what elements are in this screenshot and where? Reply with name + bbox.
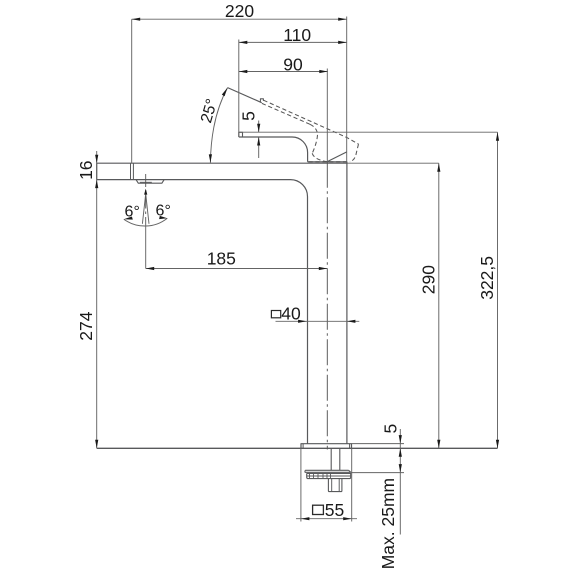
spout top edge / body top datum line [97,162,347,164]
extension line left of 110/90 [238,40,240,138]
25 arc arrows [209,154,212,163]
extension to 185 [145,224,147,269]
mounting nut [328,479,342,492]
lever blade bottom edge [262,103,310,124]
svg-text:40: 40 [281,304,301,324]
6 fan apex arrow [144,189,147,195]
lever at rest (dashed): blade top edge [264,100,359,144]
extension line right of 220/110 [346,17,348,162]
svg-text:Max. 25mm: Max. 25mm [378,478,398,569]
dimension 220 [132,18,347,20]
extension line 322.5 top [239,131,498,133]
washer band hatch ticks [310,473,331,478]
svg-text:6°: 6° [156,202,171,219]
svg-text:220: 220 [225,1,254,21]
6 degree arc [124,218,168,226]
dimension 40 [276,320,360,322]
dimension 55 [296,518,357,520]
322.5 arrows [496,132,499,141]
lever base (escutcheon) with nub [239,137,308,162]
extension lines 55 [301,448,352,521]
base plate end ticks [303,444,350,449]
base plate [301,444,352,449]
max25 bottom arrow [399,464,402,473]
290 arrows [437,163,440,172]
raised cap edge line [327,152,347,162]
arrowheads [95,18,499,521]
aerator lip [136,180,164,184]
label 40 with square [271,311,280,318]
mounting washer band [307,473,351,478]
nut inner verticals [332,479,340,492]
55 arrows [301,517,310,520]
washer band inner line [307,475,351,477]
mounting washer top plate [305,470,351,472]
90 arrows [239,70,248,73]
outlet seam verticals [131,163,134,179]
spout tip vertical [96,163,98,179]
extension base plate top right [352,443,405,445]
svg-text:16: 16 [76,160,96,179]
svg-text:90: 90 [283,55,303,75]
svg-text:55: 55 [325,500,344,520]
274 bottom arrow [95,440,98,449]
spout bottom edge curving into body left edge [97,180,308,444]
svg-text:185: 185 [207,249,236,269]
dimension 5 lever gap [258,121,260,159]
svg-text:322,5: 322,5 [477,256,497,300]
40 arrows (outside) [298,320,307,323]
220 arrows [132,18,141,21]
cap bottom-left dashed curve [312,153,327,161]
16 arrows [95,155,98,164]
svg-text:6°: 6° [125,203,140,220]
dimension texts [76,1,497,569]
aerator centerline [145,174,147,224]
svg-text:274: 274 [76,311,96,340]
lever tip notch [260,99,263,103]
extension line 290 (right of body along datum) [347,162,439,164]
lever tip nub [239,132,243,137]
extension line left of 220 [131,19,133,163]
svg-text:110: 110 [283,25,311,45]
extension washer top right [351,472,404,474]
110 arrows [239,41,248,44]
svg-text:5: 5 [239,111,259,121]
dimension 110 [239,41,347,43]
threaded rod [331,448,340,470]
dimension 16 / 274 line [96,151,98,448]
cap bottom dashed over seam [309,161,351,163]
body top seam [308,161,347,163]
cap right dashed edge [350,144,358,162]
6 arc arrows [124,217,133,220]
countertop line [97,447,498,449]
svg-text:290: 290 [418,265,438,294]
dimension 5 base / max25 line [399,429,401,535]
aerator crosshair tick [140,181,152,183]
dimension 185 [146,268,328,270]
svg-text:5: 5 [381,424,401,434]
185 arrows [146,267,155,270]
centerline solid upper part (90 extension) [326,69,328,162]
body right edge [346,162,348,444]
5 base arrows [399,435,402,444]
5 lever arrows [257,124,260,133]
lever raised 25 degree line [228,88,262,103]
dimension 90 [239,71,328,73]
centerline of body (dash-dot) [326,162,328,450]
25 degree arc [210,88,227,163]
dimension 322.5 [497,132,499,448]
label 55 with square [313,505,324,514]
dimension 290 [438,163,440,448]
cap left dashed curve [310,124,317,153]
6 degree fan lines [142,194,149,224]
